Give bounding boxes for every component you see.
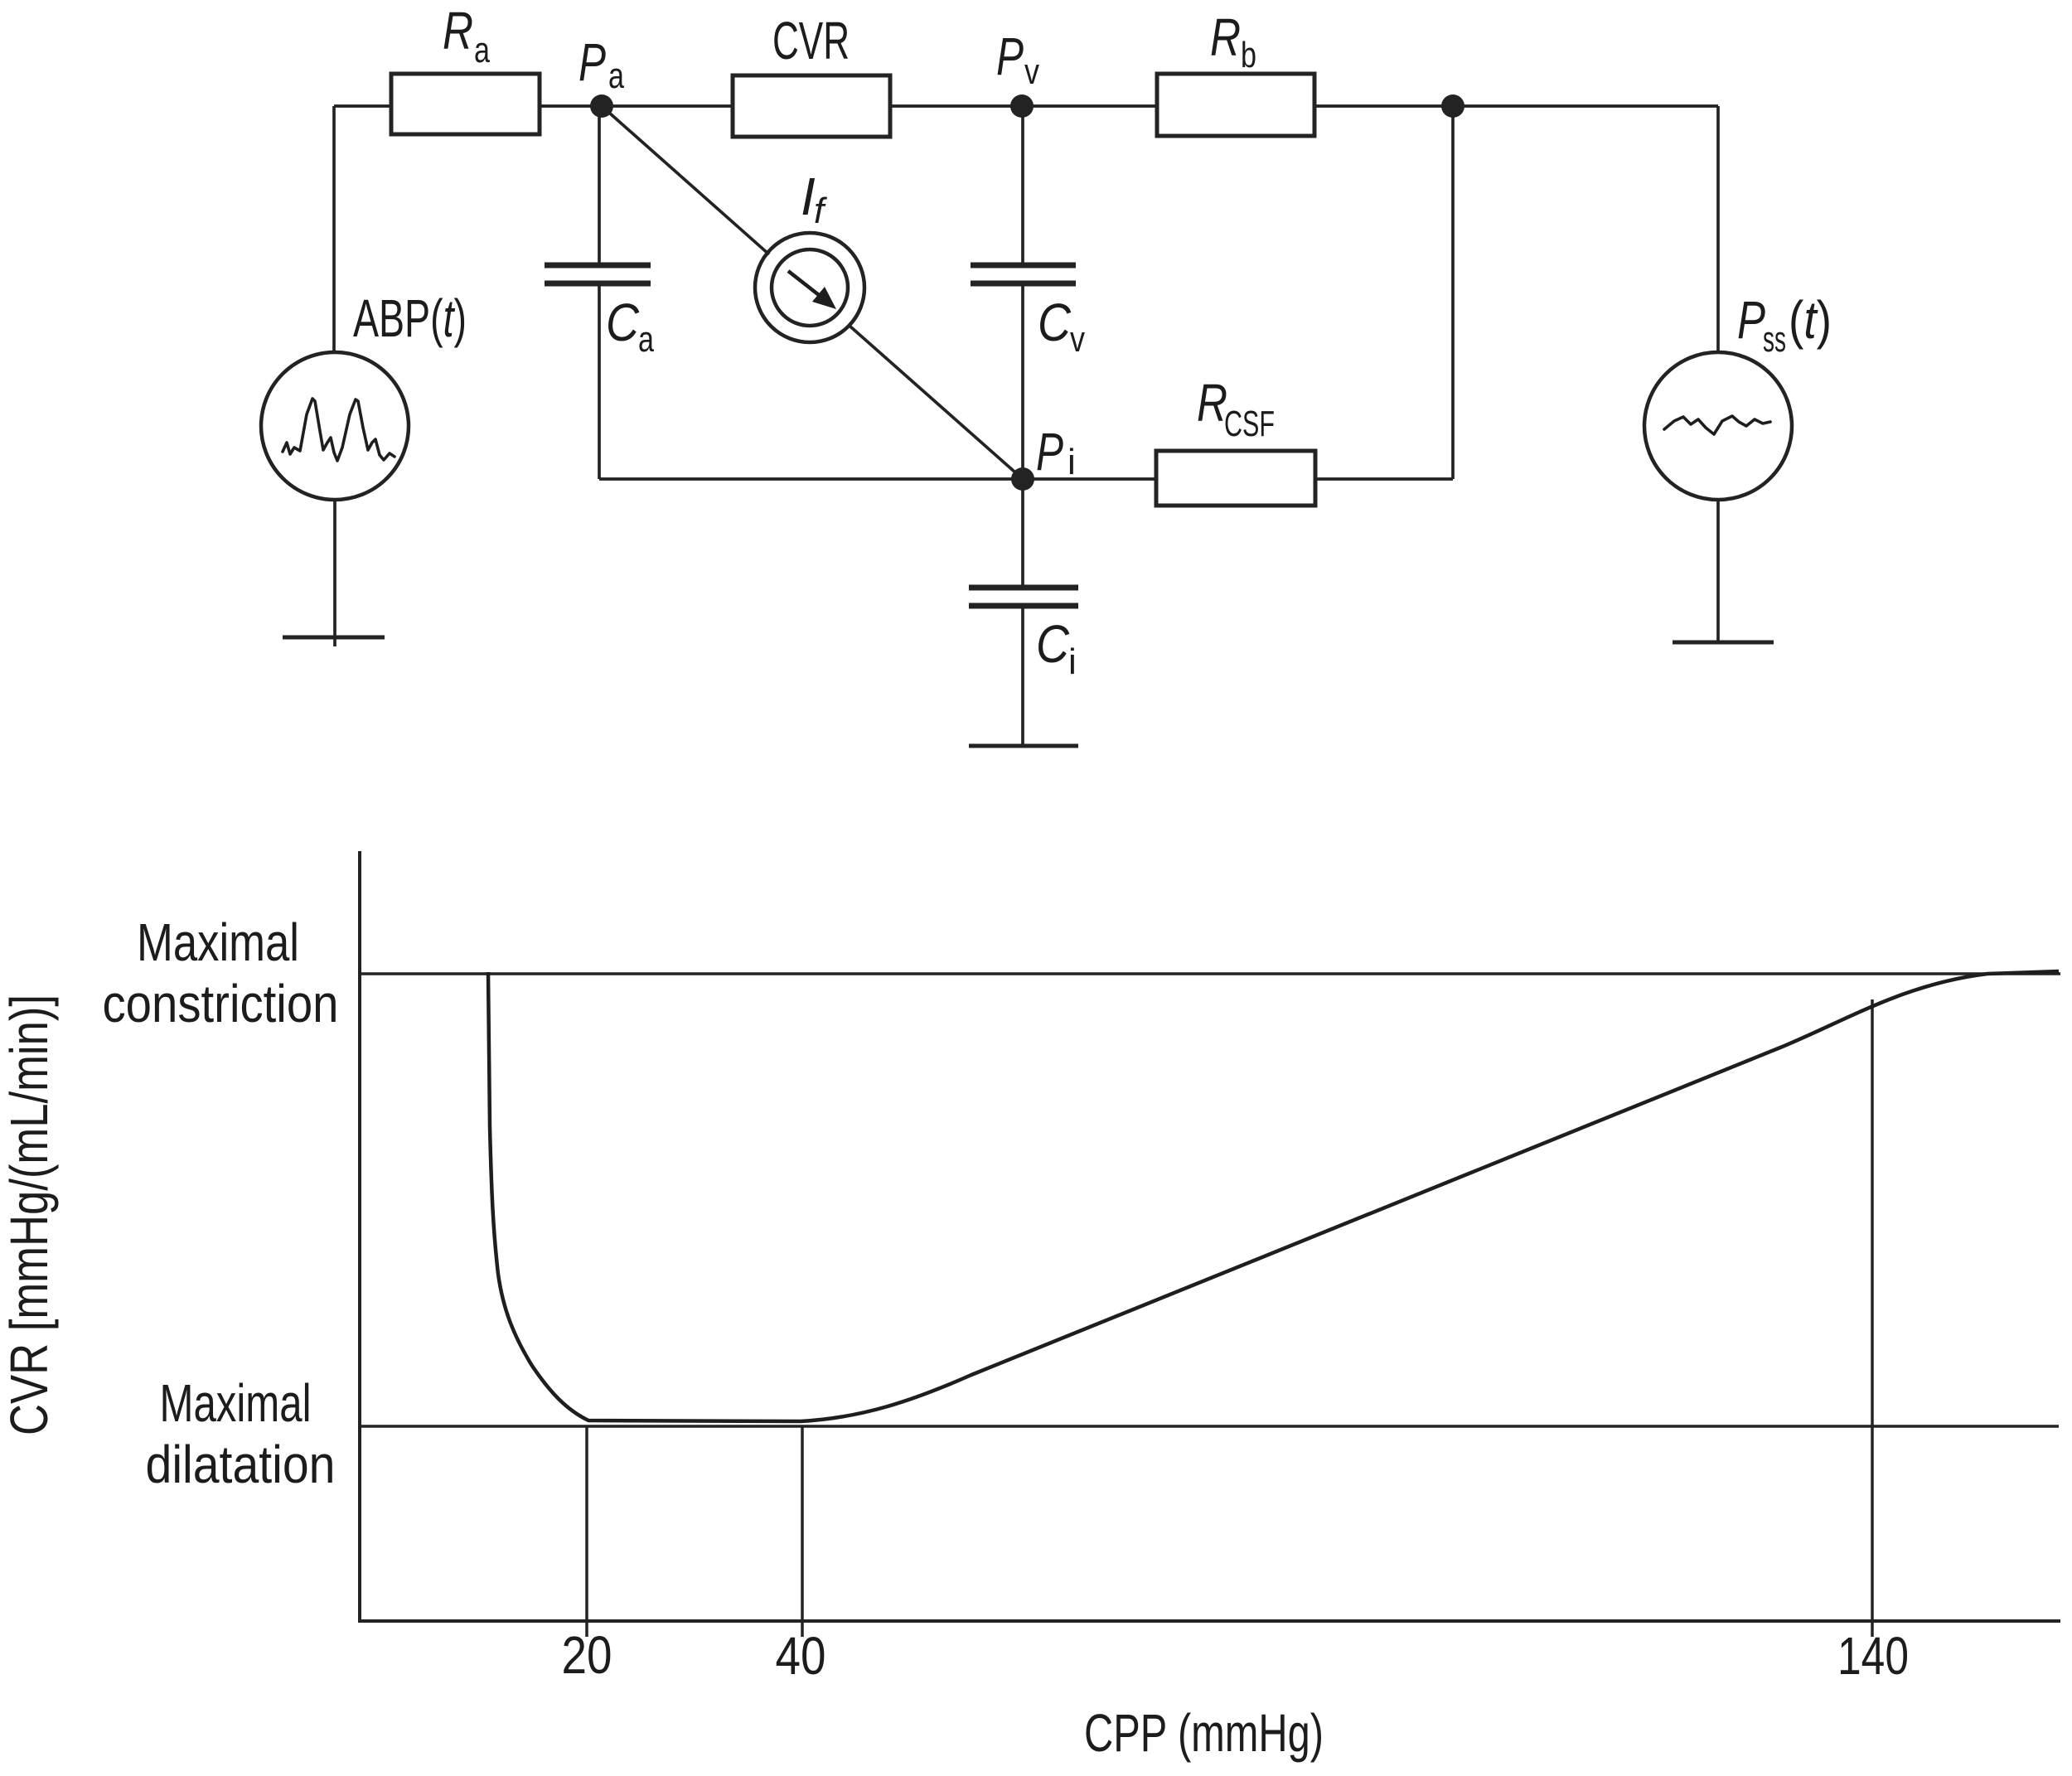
svg-text:Maximal: Maximal bbox=[160, 1373, 312, 1433]
svg-text:(t): (t) bbox=[1789, 290, 1832, 350]
svg-text:constriction: constriction bbox=[103, 974, 339, 1033]
svg-text:P: P bbox=[1036, 422, 1063, 482]
svg-text:dilatation: dilatation bbox=[146, 1435, 336, 1494]
svg-text:CVR [mmHg/(mL/min)]: CVR [mmHg/(mL/min)] bbox=[0, 994, 59, 1435]
svg-text:ABP(t): ABP(t) bbox=[353, 288, 467, 348]
svg-text:CPP (mmHg): CPP (mmHg) bbox=[1084, 1703, 1324, 1763]
svg-text:R: R bbox=[443, 1, 473, 60]
svg-text:i: i bbox=[1068, 641, 1077, 682]
svg-text:C: C bbox=[1036, 614, 1070, 674]
svg-text:b: b bbox=[1241, 35, 1256, 75]
svg-text:Maximal: Maximal bbox=[137, 912, 299, 972]
svg-text:P: P bbox=[579, 32, 606, 92]
svg-text:ss: ss bbox=[1763, 319, 1786, 360]
svg-text:40: 40 bbox=[776, 1626, 826, 1686]
svg-text:CVR: CVR bbox=[772, 11, 850, 70]
svg-text:CSF: CSF bbox=[1224, 404, 1275, 444]
svg-text:C: C bbox=[1038, 293, 1072, 352]
svg-text:R: R bbox=[1197, 373, 1227, 433]
svg-text:R: R bbox=[1210, 7, 1241, 67]
svg-text:P: P bbox=[1737, 290, 1765, 350]
svg-text:140: 140 bbox=[1837, 1626, 1909, 1686]
svg-text:v: v bbox=[1024, 51, 1039, 92]
svg-text:a: a bbox=[638, 319, 654, 360]
svg-text:i: i bbox=[1067, 442, 1076, 482]
svg-text:20: 20 bbox=[562, 1625, 612, 1685]
svg-text:a: a bbox=[474, 30, 490, 70]
svg-text:P: P bbox=[996, 27, 1024, 86]
svg-text:a: a bbox=[608, 56, 624, 96]
svg-text:v: v bbox=[1070, 319, 1085, 360]
svg-text:C: C bbox=[606, 293, 640, 352]
